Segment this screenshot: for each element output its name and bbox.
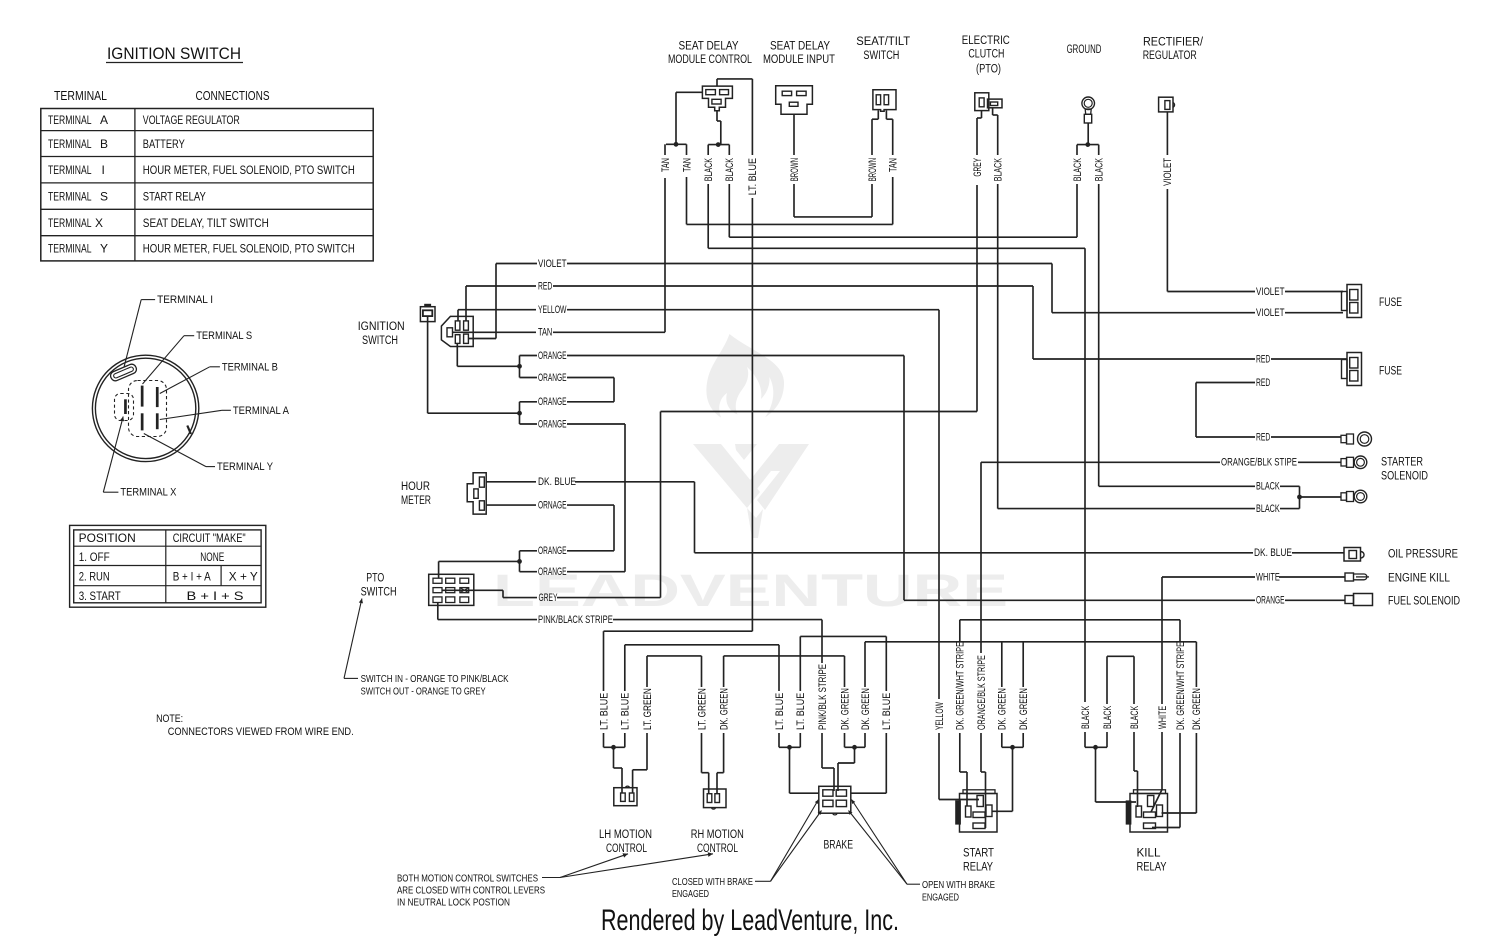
svg-text:TERMINAL I: TERMINAL I <box>157 294 213 306</box>
svg-text:SEAT/TILT: SEAT/TILT <box>856 36 910 48</box>
svg-text:B + I + A: B + I + A <box>173 572 211 584</box>
svg-text:BLACK: BLACK <box>1129 705 1141 729</box>
svg-text:SEAT DELAY, TILT SWITCH: SEAT DELAY, TILT SWITCH <box>143 216 269 230</box>
svg-text:MODULE INPUT: MODULE INPUT <box>763 54 835 66</box>
svg-text:YELLOW: YELLOW <box>934 702 946 730</box>
svg-text:SWITCH: SWITCH <box>863 50 899 62</box>
svg-text:DK. GREEN: DK. GREEN <box>718 688 730 730</box>
svg-text:RED: RED <box>1256 353 1270 365</box>
svg-text:WHITE: WHITE <box>1157 706 1169 729</box>
svg-text:TERMINAL B: TERMINAL B <box>222 361 278 373</box>
svg-text:POSITION: POSITION <box>79 533 136 545</box>
svg-text:LT. BLUE: LT. BLUE <box>795 693 807 730</box>
svg-text:TERMINAL Y: TERMINAL Y <box>217 461 273 473</box>
svg-text:CONNECTORS VIEWED FROM WIRE EN: CONNECTORS VIEWED FROM WIRE END. <box>168 726 354 738</box>
svg-text:ORNAGE: ORNAGE <box>538 500 567 512</box>
svg-text:BLACK: BLACK <box>1080 705 1092 729</box>
svg-text:VIOLET: VIOLET <box>1256 286 1285 298</box>
svg-text:CLUTCH: CLUTCH <box>968 49 1004 61</box>
svg-text:TERMINAL S: TERMINAL S <box>196 330 252 342</box>
svg-text:BLACK: BLACK <box>724 158 736 182</box>
svg-text:LT. BLUE: LT. BLUE <box>881 693 893 730</box>
svg-text:VOLTAGE REGULATOR: VOLTAGE REGULATOR <box>143 113 240 127</box>
svg-text:RED: RED <box>1256 377 1270 389</box>
svg-text:LH MOTION: LH MOTION <box>599 829 652 841</box>
svg-text:MODULE CONTROL: MODULE CONTROL <box>668 54 752 66</box>
svg-text:RELAY: RELAY <box>963 862 993 874</box>
svg-text:LT. BLUE: LT. BLUE <box>774 693 786 730</box>
svg-text:A: A <box>100 113 108 127</box>
svg-text:2. RUN: 2. RUN <box>79 572 110 584</box>
svg-text:ENGINE KILL: ENGINE KILL <box>1388 572 1451 584</box>
svg-text:LT. BLUE: LT. BLUE <box>598 693 610 730</box>
svg-text:BROWN: BROWN <box>789 158 801 181</box>
svg-text:CLOSED WITH BRAKE: CLOSED WITH BRAKE <box>672 876 753 888</box>
svg-text:VIOLET: VIOLET <box>538 258 567 270</box>
svg-text:SWITCH: SWITCH <box>362 335 398 347</box>
svg-text:DK. GREEN: DK. GREEN <box>839 688 851 730</box>
svg-text:DK. GREEN: DK. GREEN <box>1191 688 1203 730</box>
svg-text:HOUR: HOUR <box>401 481 430 493</box>
svg-text:BATTERY: BATTERY <box>143 137 185 151</box>
svg-text:TERMINAL: TERMINAL <box>48 216 92 230</box>
svg-text:ORANGE: ORANGE <box>1256 595 1285 607</box>
svg-text:START: START <box>963 848 994 860</box>
svg-text:BLACK: BLACK <box>1094 158 1106 182</box>
svg-text:TERMINAL A: TERMINAL A <box>233 405 290 417</box>
svg-text:BRAKE: BRAKE <box>824 840 854 852</box>
svg-text:SEAT DELAY: SEAT DELAY <box>770 41 830 53</box>
svg-text:1. OFF: 1. OFF <box>79 552 110 564</box>
svg-text:B + I + S: B + I + S <box>187 591 244 603</box>
svg-text:BROWN: BROWN <box>867 158 879 181</box>
svg-text:TAN: TAN <box>681 158 693 172</box>
svg-text:GROUND: GROUND <box>1067 44 1102 56</box>
svg-text:BLACK: BLACK <box>703 158 715 182</box>
svg-text:YELLOW: YELLOW <box>538 304 567 316</box>
svg-text:DK. BLUE: DK. BLUE <box>538 476 576 488</box>
svg-text:TERMINAL: TERMINAL <box>48 163 92 177</box>
svg-text:CONNECTIONS: CONNECTIONS <box>196 88 270 103</box>
svg-text:RH MOTION: RH MOTION <box>691 829 744 841</box>
svg-text:ORANGE: ORANGE <box>538 396 567 408</box>
svg-text:ORANGE: ORANGE <box>538 418 567 430</box>
svg-text:CONTROL: CONTROL <box>606 843 647 855</box>
svg-text:ORANGE/BLK STIPE: ORANGE/BLK STIPE <box>1221 457 1297 469</box>
svg-text:ORANGE: ORANGE <box>538 372 567 384</box>
svg-text:HOUR METER, FUEL SOLENOID, PTO: HOUR METER, FUEL SOLENOID, PTO SWITCH <box>143 163 355 177</box>
svg-text:ARE CLOSED WITH CONTROL LEVERS: ARE CLOSED WITH CONTROL LEVERS <box>397 884 545 896</box>
svg-text:LT. BLUE: LT. BLUE <box>747 158 759 195</box>
svg-text:NOTE:: NOTE: <box>156 713 183 725</box>
svg-text:VIOLET: VIOLET <box>1162 158 1174 186</box>
svg-text:IN NEUTRAL LOCK POSTION: IN NEUTRAL LOCK POSTION <box>397 896 510 908</box>
svg-text:PTO: PTO <box>366 573 384 585</box>
svg-text:ORANGE: ORANGE <box>538 566 567 578</box>
svg-text:I: I <box>102 163 105 177</box>
svg-text:LEADVENTURE: LEADVENTURE <box>493 565 1008 616</box>
svg-text:(PTO): (PTO) <box>976 63 1001 75</box>
svg-text:OPEN WITH BRAKE: OPEN WITH BRAKE <box>922 879 995 891</box>
svg-text:SEAT DELAY: SEAT DELAY <box>679 41 739 53</box>
svg-text:DK. BLUE: DK. BLUE <box>1254 547 1292 559</box>
svg-text:CIRCUIT "MAKE": CIRCUIT "MAKE" <box>173 533 246 545</box>
svg-text:METER: METER <box>401 495 431 507</box>
svg-text:TAN: TAN <box>660 158 672 172</box>
svg-text:DK. GREEN/WHT STRIPE: DK. GREEN/WHT STRIPE <box>1175 642 1187 730</box>
svg-text:BLACK: BLACK <box>993 158 1005 182</box>
svg-text:SWITCH OUT - ORANGE TO GREY: SWITCH OUT - ORANGE TO GREY <box>361 685 486 697</box>
svg-text:SOLENOID: SOLENOID <box>1381 470 1428 482</box>
svg-text:FUSE: FUSE <box>1379 297 1402 309</box>
svg-text:TAN: TAN <box>538 327 552 339</box>
svg-text:ENGAGED: ENGAGED <box>672 888 709 900</box>
svg-text:WHITE: WHITE <box>1256 571 1280 583</box>
svg-text:TERMINAL: TERMINAL <box>48 189 92 203</box>
svg-text:BLACK: BLACK <box>1072 158 1084 182</box>
svg-text:NONE: NONE <box>200 552 224 564</box>
svg-text:TERMINAL: TERMINAL <box>48 137 92 151</box>
svg-text:Rendered by LeadVenture, Inc.: Rendered by LeadVenture, Inc. <box>601 904 899 937</box>
svg-text:IGNITION: IGNITION <box>358 321 405 333</box>
svg-text:ENGAGED: ENGAGED <box>922 892 959 904</box>
svg-text:RED: RED <box>538 280 552 292</box>
svg-text:ELECTRIC: ELECTRIC <box>962 35 1010 47</box>
svg-text:SWITCH IN - ORANGE TO PINK/BLA: SWITCH IN - ORANGE TO PINK/BLACK <box>361 673 509 685</box>
svg-text:TERMINAL: TERMINAL <box>48 113 92 127</box>
svg-text:B: B <box>100 137 108 151</box>
svg-text:BOTH MOTION CONTROL SWITCHES: BOTH MOTION CONTROL SWITCHES <box>397 872 538 884</box>
svg-text:DK. GREEN: DK. GREEN <box>997 688 1009 730</box>
svg-text:PINK/BLK STRIPE: PINK/BLK STRIPE <box>817 664 829 730</box>
svg-text:ORANGE/BLK STRIPE: ORANGE/BLK STRIPE <box>976 655 988 730</box>
svg-text:RELAY: RELAY <box>1137 862 1167 874</box>
svg-text:X + Y: X + Y <box>229 572 258 584</box>
svg-text:BLACK: BLACK <box>1256 481 1280 493</box>
svg-text:CONTROL: CONTROL <box>697 843 738 855</box>
svg-text:LT. BLUE: LT. BLUE <box>620 693 632 730</box>
svg-text:X: X <box>95 216 103 230</box>
svg-text:RECTIFIER/: RECTIFIER/ <box>1143 37 1204 49</box>
svg-text:BLACK: BLACK <box>1102 705 1114 729</box>
svg-text:LT. GREEN: LT. GREEN <box>696 688 708 730</box>
svg-text:IGNITION SWITCH: IGNITION SWITCH <box>107 45 241 63</box>
svg-text:ORANGE: ORANGE <box>538 350 567 362</box>
svg-text:SWITCH: SWITCH <box>361 587 397 599</box>
svg-text:FUEL SOLENOID: FUEL SOLENOID <box>1388 596 1460 608</box>
svg-text:PINK/BLACK STRIPE: PINK/BLACK STRIPE <box>538 614 613 626</box>
svg-text:S: S <box>100 189 108 203</box>
svg-text:KILL: KILL <box>1137 848 1162 860</box>
svg-text:LT. GREEN: LT. GREEN <box>642 688 654 730</box>
svg-text:GREY: GREY <box>539 592 558 604</box>
svg-text:HOUR METER, FUEL SOLENOID, PTO: HOUR METER, FUEL SOLENOID, PTO SWITCH <box>143 242 355 256</box>
svg-text:BLACK: BLACK <box>1256 503 1280 515</box>
svg-text:Y: Y <box>100 242 108 256</box>
svg-text:TAN: TAN <box>888 158 900 172</box>
svg-text:DK. GREEN/WHT STRIPE: DK. GREEN/WHT STRIPE <box>955 642 967 730</box>
svg-text:OIL PRESSURE: OIL PRESSURE <box>1388 548 1458 560</box>
svg-text:DK. GREEN: DK. GREEN <box>860 688 872 730</box>
svg-text:RED: RED <box>1256 431 1270 443</box>
svg-text:TERMINAL: TERMINAL <box>54 88 107 103</box>
svg-text:TERMINAL: TERMINAL <box>48 242 92 256</box>
svg-text:REGULATOR: REGULATOR <box>1143 50 1197 62</box>
svg-text:TERMINAL X: TERMINAL X <box>120 487 176 499</box>
svg-text:DK. GREEN: DK. GREEN <box>1018 688 1030 730</box>
svg-text:3. START: 3. START <box>79 591 121 603</box>
svg-text:FUSE: FUSE <box>1379 366 1402 378</box>
svg-text:GREY: GREY <box>972 158 984 177</box>
svg-text:START RELAY: START RELAY <box>143 189 206 203</box>
svg-text:VIOLET: VIOLET <box>1256 307 1285 319</box>
svg-text:STARTER: STARTER <box>1381 456 1423 468</box>
svg-text:ORANGE: ORANGE <box>538 545 567 557</box>
